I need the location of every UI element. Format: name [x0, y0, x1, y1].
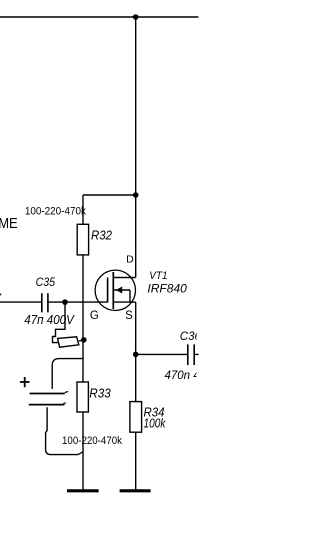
svg-text:S: S — [125, 310, 133, 322]
svg-text:C35: C35 — [36, 277, 56, 289]
svg-text:ME: ME — [0, 215, 18, 232]
svg-text:100-220-470k: 100-220-470k — [62, 435, 122, 447]
svg-text:C36: C36 — [180, 331, 202, 343]
svg-text:VT1: VT1 — [149, 270, 167, 282]
svg-text:D: D — [126, 254, 134, 266]
svg-text:100-220-470k: 100-220-470k — [25, 205, 86, 217]
svg-text:R32: R32 — [91, 228, 112, 242]
svg-text:G: G — [90, 310, 99, 322]
svg-text:470n 400V: 470n 400V — [165, 370, 222, 382]
svg-text:47п 400V: 47п 400V — [24, 313, 75, 327]
svg-text:IRF840: IRF840 — [147, 284, 187, 296]
svg-text:100k: 100k — [144, 416, 167, 430]
svg-text:R33: R33 — [89, 387, 110, 401]
